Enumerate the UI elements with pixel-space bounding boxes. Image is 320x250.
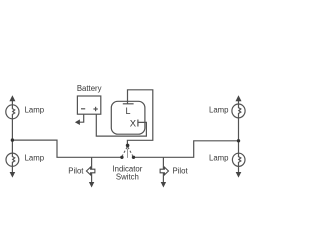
svg-text:Battery: Battery bbox=[77, 84, 102, 93]
svg-text:Switch: Switch bbox=[116, 173, 139, 182]
svg-text:Pilot: Pilot bbox=[173, 167, 189, 176]
svg-text:X: X bbox=[130, 118, 137, 129]
svg-text:Pilot: Pilot bbox=[68, 167, 84, 176]
svg-text:L: L bbox=[126, 106, 131, 116]
svg-text:Lamp: Lamp bbox=[209, 153, 229, 162]
svg-text:Lamp: Lamp bbox=[25, 153, 45, 162]
svg-text:Lamp: Lamp bbox=[25, 105, 45, 114]
svg-text:Lamp: Lamp bbox=[209, 105, 229, 114]
